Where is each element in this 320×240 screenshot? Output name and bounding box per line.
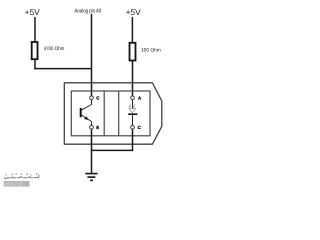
svg-text:4700 Ohm: 4700 Ohm — [44, 46, 65, 52]
optocoupler U1 package outline — [64, 83, 162, 144]
phototransistor Q1 collector lead — [81, 100, 91, 111]
optocoupler U1 inner body — [71, 91, 150, 136]
pin C collector terminal — [90, 96, 94, 100]
svg-text:100 Ohm: 100 Ohm — [141, 47, 161, 53]
wire horizontal cathode to ground node — [91, 149, 134, 151]
slot divider left — [103, 91, 105, 136]
phototransistor Q1 emitter lead — [81, 115, 91, 125]
LED D1 anode wire — [132, 100, 134, 109]
wire R1 bottom down — [34, 60, 36, 70]
pin A anode terminal — [131, 96, 135, 100]
wire cathode C down — [132, 129, 134, 151]
svg-text:+5V: +5V — [126, 7, 142, 17]
wire R2 bottom down to anode pin A — [132, 61, 134, 96]
wire emitter E down to ground — [91, 129, 93, 173]
LED D1 light arrows — [129, 104, 135, 108]
wire +5V right to R2 top — [131, 17, 133, 43]
slot divider right — [118, 91, 120, 136]
svg-text:MCLC.IR: MCLC.IR — [5, 182, 22, 187]
LED D1 cathode bar — [128, 113, 137, 115]
resistor R2 100 Ohm — [130, 43, 136, 61]
LED D1 cathode wire — [132, 115, 134, 125]
svg-text:Analog pin A0: Analog pin A0 — [75, 7, 102, 14]
watermark badge box — [4, 181, 30, 187]
svg-text:+5V: +5V — [25, 7, 41, 17]
pin C cathode terminal — [131, 125, 135, 129]
pin E emitter terminal — [90, 125, 94, 129]
wire horizontal R1 to node A0 — [34, 68, 91, 70]
phototransistor Q1 base bar — [80, 108, 82, 117]
watermark store script text — [4, 175, 39, 178]
phototransistor Q1 emitter arrow — [84, 116, 88, 120]
resistor R1 4700 Ohm — [32, 42, 38, 59]
svg-text:E: E — [96, 125, 99, 130]
ground symbol — [85, 174, 97, 181]
wire +5V left to R1 top — [34, 17, 36, 43]
LED D1 triangle — [129, 109, 136, 113]
wire Analog pin A0 down to collector pin C — [91, 14, 93, 96]
